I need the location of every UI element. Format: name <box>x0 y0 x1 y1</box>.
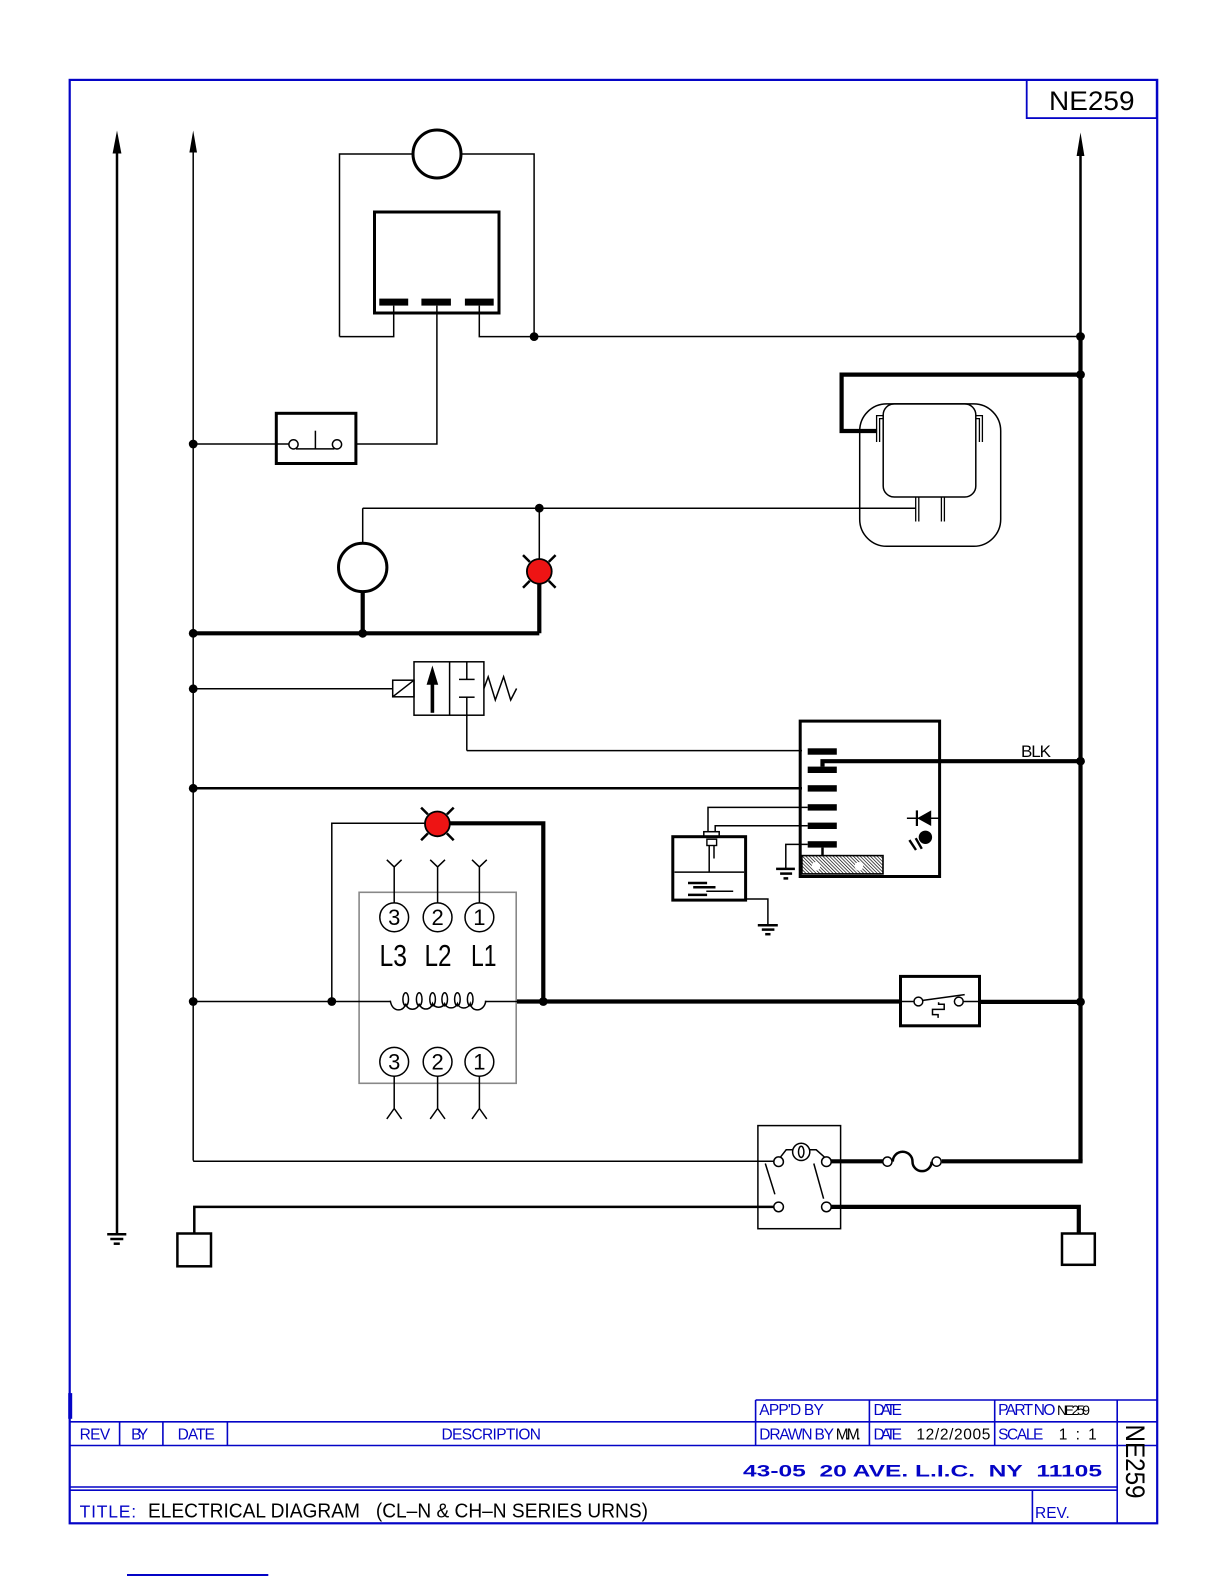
switch link right <box>810 1150 825 1158</box>
svg-text:ELECTRICAL DIAGRAM (CL–N & C: ELECTRICAL DIAGRAM (CL–N & CH–N SERIES U… <box>148 1500 648 1523</box>
load fork 3 <box>387 1076 402 1119</box>
tank heater outer body <box>860 404 1001 546</box>
wire stub to buzzer <box>362 508 364 544</box>
board terminal T3 <box>808 785 837 791</box>
solenoid valve SV1 coil <box>393 680 414 697</box>
thermostat contact left <box>914 997 923 1006</box>
coil bus wire bold <box>517 999 902 1003</box>
ground symbol under left rail <box>107 1234 126 1243</box>
wire T2 BLK to right rail <box>823 761 1081 766</box>
wire lower pole to ground pad left <box>194 1207 774 1234</box>
svg-text:APP'D BY: APP'D BY <box>759 1402 824 1419</box>
load terminal circle 2 <box>423 1047 452 1076</box>
svg-text:PART NO: PART NO <box>998 1402 1055 1419</box>
tank heater inner body <box>883 404 976 497</box>
svg-text:12/2/2005: 12/2/2005 <box>916 1426 990 1443</box>
wire dash2 down to switch <box>356 306 437 444</box>
valve flow arrow <box>427 666 439 713</box>
board LED <box>909 831 932 850</box>
wire rail L2 to main switch <box>193 1160 774 1161</box>
ground pad right <box>1062 1234 1095 1265</box>
switch blade right <box>814 1164 824 1199</box>
wire dash1 to loop <box>340 306 394 337</box>
contactor coil <box>390 1001 486 1010</box>
svg-text:M.M.: M.M. <box>836 1426 861 1443</box>
heater pin right <box>976 416 983 442</box>
water ripple 2 <box>693 886 715 889</box>
board relay block hatched <box>802 856 883 874</box>
node right rail bus <box>1076 998 1085 1007</box>
svg-text:3: 3 <box>388 1050 400 1075</box>
pilot lamp red PL2 <box>421 808 454 841</box>
hi-limit thermostat box <box>901 976 980 1025</box>
wire rail L2 to switch <box>193 443 289 445</box>
wire rail L2 to board T3 <box>193 787 802 790</box>
wire T5 to probe <box>715 826 808 832</box>
terminal dash 3 <box>465 299 494 306</box>
svg-text:1: 1 <box>473 905 485 930</box>
svg-text:DRAWN BY: DRAWN BY <box>759 1426 834 1443</box>
line terminal fork 2 <box>430 860 445 903</box>
heater pin bottom left <box>916 497 919 522</box>
switch actuator <box>314 431 316 450</box>
wire thermostat internal right <box>963 1001 979 1003</box>
board terminal T5 <box>808 823 837 829</box>
heater pin bottom right <box>941 497 944 522</box>
switch contact left <box>289 440 298 449</box>
wire rail L2 to solenoid <box>193 688 393 690</box>
supply rail arrow L1 left <box>113 131 122 1234</box>
ground symbol board <box>776 869 795 879</box>
title block row1 text <box>759 1402 1090 1419</box>
wire loop around dial left <box>340 154 414 337</box>
svg-text:DATE: DATE <box>874 1426 903 1443</box>
wire T6 stub to relay block <box>821 848 824 856</box>
node right rail top <box>1076 332 1085 341</box>
node heater feed <box>1076 370 1085 379</box>
water ripple 4 <box>688 894 707 897</box>
load fork 2 <box>430 1076 445 1119</box>
switch pole bottom left <box>774 1202 784 1212</box>
svg-text:L2: L2 <box>425 938 452 973</box>
node lamp2 bold branch <box>539 997 548 1006</box>
relay block hole 1 <box>812 862 821 871</box>
contactor CR1 outline <box>359 892 516 1083</box>
wire tank to ground <box>746 899 768 925</box>
switch link left <box>780 1150 792 1158</box>
load fork 1 <box>472 1076 487 1119</box>
contact circle 1 top <box>465 903 494 932</box>
node rail L2 coil bus <box>189 997 198 1006</box>
coil bus wire thin left <box>193 1001 391 1003</box>
water level line <box>675 871 745 873</box>
contact circle 3 top <box>380 903 409 932</box>
wire thermostat to right rail bold <box>980 1000 1081 1004</box>
valve seat symbol <box>459 662 475 751</box>
switch contact right <box>332 440 341 449</box>
wire dash3 to node <box>479 306 534 337</box>
pilot lamp red PL1 <box>523 508 556 633</box>
svg-text:NE259: NE259 <box>1049 86 1135 116</box>
wire buzzer to bold bus <box>361 592 365 634</box>
thermostat blade <box>923 995 965 1001</box>
svg-text:REV: REV <box>80 1426 111 1443</box>
switch pole bottom right <box>822 1202 832 1212</box>
fuse F1 <box>883 1152 941 1171</box>
wire lower pole to ground pad right <box>831 1207 1079 1234</box>
svg-text:SCALE: SCALE <box>998 1426 1043 1443</box>
node lamp2 branch <box>327 997 336 1006</box>
pilot lamp 2 branch wire left <box>332 823 425 1001</box>
svg-text:DATE: DATE <box>874 1402 903 1419</box>
part number box NE259 <box>1027 80 1157 118</box>
switch bar <box>296 448 335 450</box>
switch pole top left <box>774 1157 784 1167</box>
bold wire lamp row <box>193 631 539 635</box>
heater pin left <box>877 416 884 442</box>
svg-text:NE259: NE259 <box>1120 1425 1150 1499</box>
wire loop around dial right <box>461 154 534 337</box>
probe insulator <box>707 839 717 845</box>
switch blade left <box>765 1164 775 1195</box>
node rail L2 lamp row <box>189 629 198 638</box>
wire solenoid to board T1 <box>467 750 802 752</box>
relay block hole 2 <box>855 862 864 871</box>
svg-text:BY: BY <box>131 1426 148 1443</box>
svg-text:2: 2 <box>431 905 443 930</box>
node rail L2 board T3 <box>189 784 198 793</box>
main switch S1 box <box>758 1126 841 1229</box>
ground pad left <box>177 1234 211 1267</box>
terminal dash 2 <box>421 299 451 306</box>
contact circle 2 top <box>423 903 452 932</box>
left border fold mark <box>68 1393 72 1419</box>
pilot lamp 2 branch wire right bold <box>451 823 544 1001</box>
svg-text:TITLE:: TITLE: <box>80 1502 137 1522</box>
svg-text:REV.: REV. <box>1035 1505 1070 1522</box>
switch indicator 0 <box>793 1143 810 1160</box>
line terminal fork 3 <box>387 860 402 903</box>
svg-text:1 : 1: 1 : 1 <box>1059 1426 1097 1443</box>
node at loop right <box>530 332 539 341</box>
svg-text:BLK: BLK <box>1021 742 1052 761</box>
terminal dash 1 <box>379 299 408 306</box>
wire thermostat internal left <box>902 1001 914 1003</box>
svg-text:DATE: DATE <box>178 1426 215 1443</box>
board terminal T1 <box>808 748 837 754</box>
svg-text:NE259: NE259 <box>1057 1402 1090 1418</box>
valve return spring <box>484 677 517 700</box>
switch pole top right <box>822 1157 832 1167</box>
water ripple 3 <box>706 890 733 892</box>
node above pilot lamp <box>535 504 544 513</box>
bold feed wire to tank heater <box>842 375 1081 431</box>
supply rail arrow right <box>1077 133 1085 337</box>
heater control box <box>375 212 500 313</box>
bottom partial fold line <box>127 1574 268 1576</box>
svg-text:3: 3 <box>388 905 400 930</box>
load terminal circle 1 <box>465 1047 494 1076</box>
right rail bold segment <box>1078 337 1082 1162</box>
wire upper distribution <box>363 507 916 509</box>
thermostat dial circle <box>413 130 461 178</box>
water tank <box>673 837 746 900</box>
board terminal T6 <box>808 841 837 847</box>
node rail L2 solenoid <box>189 684 198 693</box>
solenoid valve body <box>414 662 484 715</box>
title block row2 text <box>80 1426 1097 1443</box>
node BLK right rail <box>1076 757 1085 766</box>
wire fuse to right rail <box>942 1159 1083 1163</box>
probe electrode short <box>713 846 715 859</box>
thermostat heater step <box>933 1002 945 1018</box>
svg-text:L3: L3 <box>380 938 408 973</box>
title row text <box>80 1500 1070 1523</box>
probe electrode long <box>708 846 710 873</box>
board terminal T4 <box>808 804 837 810</box>
load terminal circle 3 <box>380 1047 409 1076</box>
liquid level control board U1 <box>800 721 939 876</box>
supply rail arrow L2 <box>189 131 197 1161</box>
svg-text:DESCRIPTION: DESCRIPTION <box>442 1426 542 1443</box>
wire T4 to probe <box>708 807 808 831</box>
momentary switch box <box>276 413 356 463</box>
probe cap <box>704 832 719 837</box>
title block grid lines <box>70 1400 1158 1523</box>
node rail L2 switch <box>189 440 198 449</box>
wire node to right rail <box>534 336 1080 338</box>
water ripple 1 <box>688 882 707 885</box>
coil bus wire thin right <box>485 1001 517 1003</box>
buzzer circle <box>339 543 387 591</box>
board terminal T2 <box>808 767 837 773</box>
ground symbol tank <box>758 925 778 934</box>
line terminal fork 1 <box>472 860 487 903</box>
svg-text:1: 1 <box>473 1050 485 1075</box>
svg-text:2: 2 <box>431 1050 443 1075</box>
wire T6 to ground <box>786 844 808 868</box>
board diode D1 <box>907 810 940 826</box>
node buzzer lamp row <box>358 629 367 638</box>
svg-text:L1: L1 <box>471 938 497 973</box>
thermostat contact right <box>954 997 963 1006</box>
svg-text:43-05 20 AVE. L.I.C. NY 111: 43-05 20 AVE. L.I.C. NY 11105 <box>743 1463 1102 1481</box>
wire switch to fuse <box>831 1159 883 1163</box>
